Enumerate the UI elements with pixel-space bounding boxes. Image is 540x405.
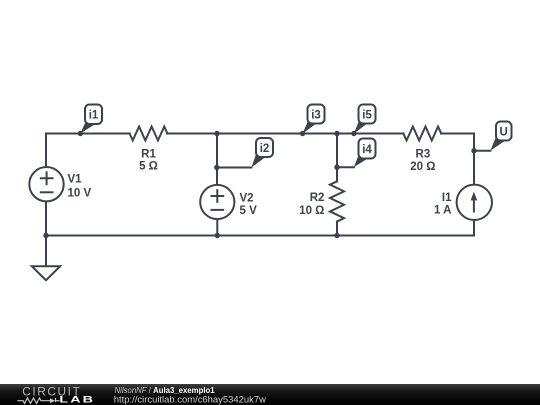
logo schematic glyph <box>17 398 59 404</box>
svg-text:i1: i1 <box>89 110 99 122</box>
I1 arrow head <box>471 192 478 201</box>
voltage source V2 <box>200 185 234 219</box>
node dot i5 <box>351 131 356 136</box>
wire top net left segment <box>46 133 130 135</box>
wire U probe tap <box>474 150 490 152</box>
node dot R2 bottom junction <box>334 233 339 238</box>
svg-text:R2: R2 <box>310 192 325 204</box>
wire right branch upper <box>473 134 475 185</box>
wire V2 branch upper <box>216 134 218 186</box>
svg-text:R1: R1 <box>141 149 156 161</box>
svg-text:i2: i2 <box>260 143 270 155</box>
svg-text:V2: V2 <box>240 193 254 205</box>
wire V2 branch lower <box>216 219 218 235</box>
node dot R2 top junction <box>334 131 339 136</box>
probe box U <box>496 122 512 141</box>
wire R2 branch upper <box>336 134 338 182</box>
svg-text:http://circuitlab.com/c6hay534: http://circuitlab.com/c6hay5342uk7w <box>114 395 266 405</box>
probe wedge i5 <box>354 121 368 134</box>
node dot i2 <box>214 165 219 170</box>
V2 minus sign <box>212 209 224 211</box>
probe box i2 <box>256 138 273 157</box>
probe box i3 <box>308 105 325 124</box>
svg-text:I1: I1 <box>442 192 452 204</box>
V2 plus sign <box>212 190 224 202</box>
current source I1 <box>457 185 492 220</box>
node dot i3 <box>300 131 305 136</box>
V1 plus sign <box>41 172 53 184</box>
probe wedge U <box>490 135 505 151</box>
node dot i4 <box>334 165 339 170</box>
probe wedge i4 <box>354 152 368 167</box>
svg-text:i3: i3 <box>311 109 321 121</box>
wire i4 probe tap <box>337 166 354 168</box>
node dot V2 top junction <box>214 131 219 136</box>
wire top net right segment <box>441 133 474 135</box>
svg-text:V1: V1 <box>68 174 83 186</box>
probe box i5 <box>359 105 376 124</box>
logo diode triangle <box>50 398 55 403</box>
probe wedge i3 <box>303 121 317 134</box>
wire top net middle segment <box>167 133 403 135</box>
wire bottom net <box>46 235 474 237</box>
svg-text:i5: i5 <box>362 109 372 121</box>
svg-text:10 Ω: 10 Ω <box>299 205 324 217</box>
probe wedge i2 <box>251 151 265 168</box>
probe box i1 <box>85 105 102 125</box>
wire left branch lower to ground <box>45 201 47 266</box>
svg-text:5 Ω: 5 Ω <box>139 161 158 173</box>
svg-text:10 V: 10 V <box>68 188 92 200</box>
wire R2 branch lower <box>336 222 338 236</box>
wire i2 probe tap <box>217 167 252 169</box>
V1 minus sign <box>41 191 53 193</box>
node dot V2 bottom junction <box>215 233 220 238</box>
node dot i1 <box>78 131 83 136</box>
resistor R3 body <box>403 127 441 141</box>
wire left branch upper <box>45 134 47 168</box>
probe wedge i1 <box>80 122 94 134</box>
svg-text:LAB: LAB <box>59 395 95 405</box>
probe box i4 <box>359 139 376 159</box>
svg-text:i4: i4 <box>362 144 372 156</box>
resistor R1 body <box>130 127 168 141</box>
I1 arrow shaft <box>473 199 475 212</box>
node dot U <box>471 148 476 153</box>
svg-text:U: U <box>500 126 508 138</box>
voltage source V1 <box>29 167 63 201</box>
svg-text:1 A: 1 A <box>434 204 451 216</box>
resistor R2 body <box>330 181 344 221</box>
node dot ground junction <box>43 233 48 238</box>
svg-text:20 Ω: 20 Ω <box>410 161 435 173</box>
svg-text:R3: R3 <box>416 149 431 161</box>
footer bar <box>0 384 540 405</box>
ground <box>32 266 60 280</box>
svg-text:5 V: 5 V <box>240 205 258 217</box>
wire right branch lower <box>473 220 475 236</box>
